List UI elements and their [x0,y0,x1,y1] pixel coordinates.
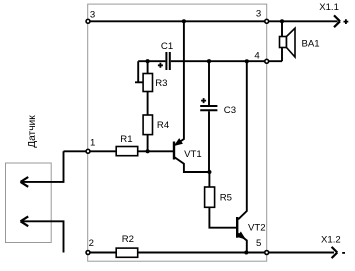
svg-text:C1: C1 [161,41,173,52]
svg-text:R3: R3 [155,78,167,89]
svg-text:3: 3 [90,9,95,20]
svg-text:R2: R2 [122,234,134,245]
svg-text:1: 1 [90,138,95,149]
svg-text:R5: R5 [220,192,232,203]
svg-text:5: 5 [256,238,261,249]
svg-text:C3: C3 [224,105,236,116]
svg-text:BA1: BA1 [302,38,320,49]
svg-text:4: 4 [254,51,260,62]
svg-text:3: 3 [256,8,261,19]
svg-text:R4: R4 [157,120,170,131]
svg-text:Датчик: Датчик [27,115,38,148]
svg-text:R1: R1 [120,134,132,145]
svg-text:2: 2 [89,238,94,249]
svg-text:X1.2: X1.2 [321,234,341,245]
svg-text:X1.1: X1.1 [319,2,339,13]
svg-text:VT1: VT1 [184,149,202,160]
svg-text:VT2: VT2 [248,223,266,234]
